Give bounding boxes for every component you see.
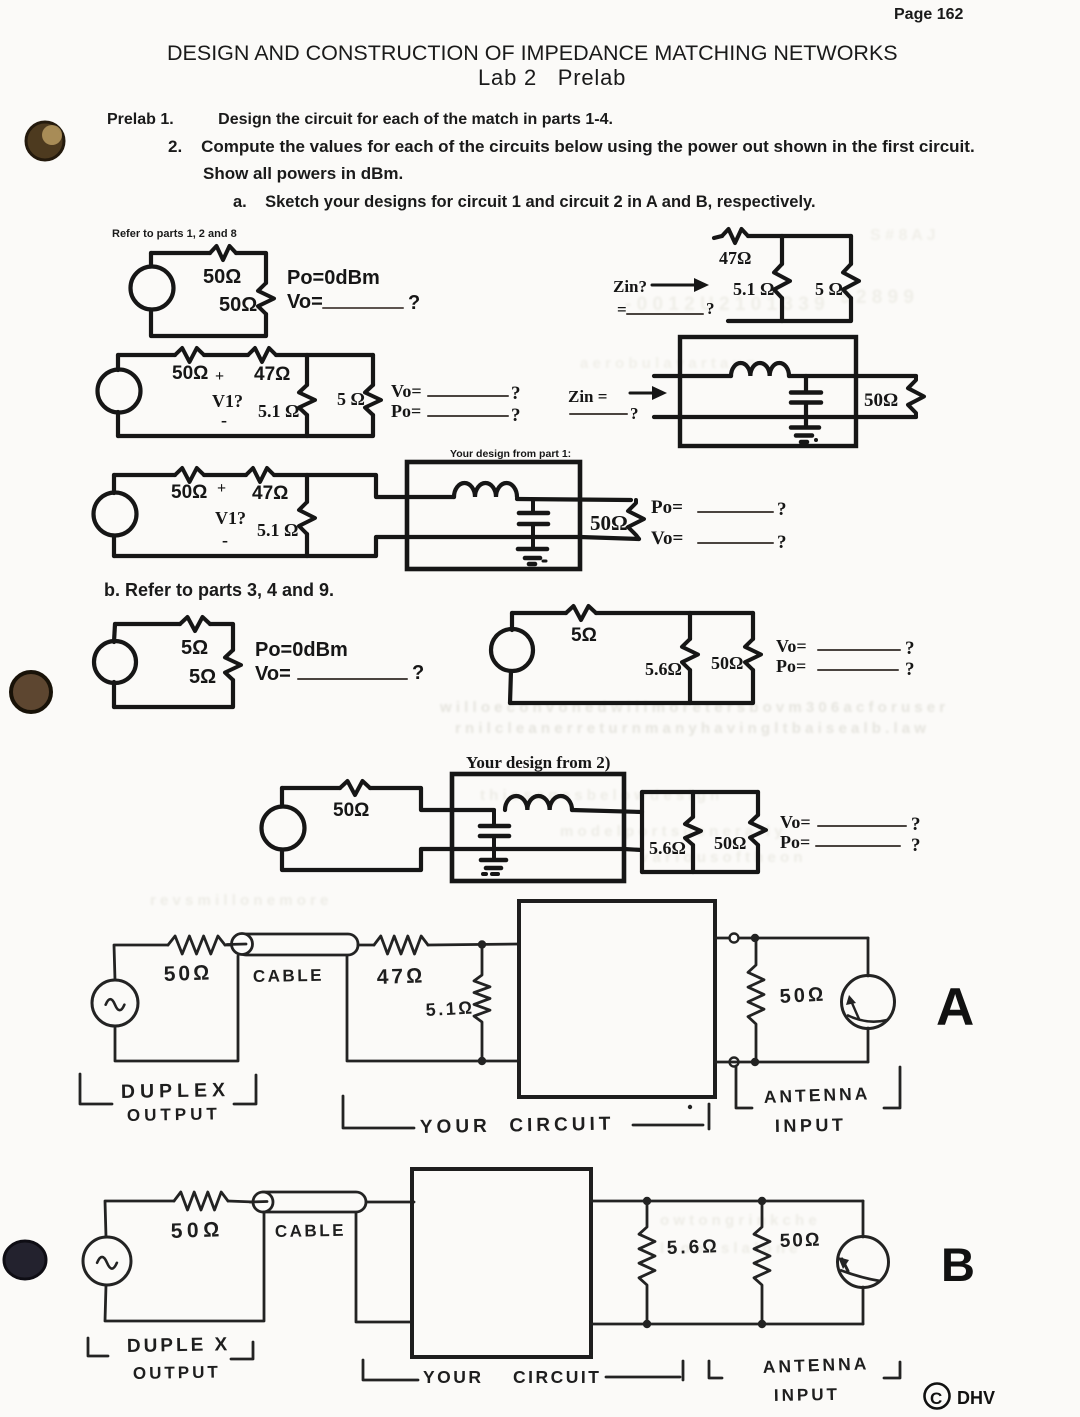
left vertical [510, 671, 511, 703]
bottom internal rail [452, 849, 642, 850]
prelab item 2 [168, 137, 975, 157]
svg-text:Zin =: Zin = [568, 387, 607, 406]
wire left vertical [116, 412, 120, 436]
capacitor lower lead [804, 403, 808, 426]
top output wire [715, 937, 868, 940]
svg-text:YOUR CIRCUIT: YOUR CIRCUIT [423, 1367, 601, 1387]
svg-text:Vo=: Vo= [287, 291, 323, 313]
wire after inductor out of box [572, 810, 642, 812]
arrow [630, 392, 655, 395]
meter to bottom wire [862, 1287, 865, 1324]
wire mid vertical bottom [780, 298, 784, 321]
svg-text:A: A [936, 978, 974, 1037]
svg-text:Po=: Po= [391, 401, 421, 421]
ground bar 1 [518, 547, 547, 552]
capacitor lower lead [492, 836, 496, 859]
wire top right [596, 611, 753, 615]
wire after inductor [517, 499, 631, 500]
svg-text:50Ω: 50Ω [711, 653, 743, 673]
capacitor lower lead [531, 524, 535, 548]
blank Po [428, 415, 508, 417]
wire top rail [282, 786, 340, 790]
junction dot 5.6 top [643, 1197, 651, 1205]
svg-text:?: ? [905, 659, 915, 680]
svg-text:C: C [930, 1389, 942, 1408]
svg-text:?: ? [777, 499, 787, 520]
wire right vertical bottom + bottom rail [728, 298, 851, 321]
svg-text:DUPLEX: DUPLEX [121, 1079, 230, 1103]
your-circuit bracket right [708, 1104, 711, 1129]
prelab item 2 cont [203, 164, 403, 184]
circuit 3: source 50+47+5.1 into 5 ohm [98, 348, 521, 436]
hole punch middle left [11, 672, 51, 712]
section b heading [104, 580, 334, 601]
svg-text:r e v s m i l l o n e m: r e v s m i l l o n e m o r e [150, 892, 328, 909]
connector stub [227, 943, 246, 946]
answer blank for Vo [323, 307, 403, 309]
resistor 5ohm load vertical [225, 650, 241, 680]
capacitor plate top [519, 511, 548, 516]
svg-text:50Ω: 50Ω [590, 511, 628, 535]
wire right bottom [151, 310, 266, 336]
design box [452, 774, 624, 881]
resistor 5.1ohm vertical [299, 502, 315, 534]
svg-text:Vo=: Vo= [651, 528, 683, 549]
resistor 50ohm shunt [754, 1201, 770, 1324]
wire top rail [115, 622, 180, 626]
ground bar 2 [525, 556, 540, 561]
cable return vertical and bottom rail [347, 956, 519, 1061]
wire mid vertical bottom [305, 534, 309, 556]
your-circuit bracket left [343, 1096, 414, 1128]
meter circle [842, 976, 895, 1029]
svg-text:DUPLE X: DUPLE X [127, 1334, 231, 1357]
svg-text:47Ω: 47Ω [254, 364, 290, 385]
resistor 50ohm series (spike) [210, 246, 236, 260]
svg-text:ANTENNA: ANTENNA [762, 1353, 869, 1377]
resistor 47ohm series [374, 936, 428, 954]
source circle [491, 629, 533, 671]
duplex bracket right [234, 1075, 256, 1104]
svg-text:OUTPUT: OUTPUT [133, 1362, 221, 1383]
svg-text:50Ω: 50Ω [172, 363, 208, 384]
wire source to top rail [114, 945, 168, 980]
antenna bracket left [709, 1361, 722, 1378]
your-circuit bracket dash [606, 1376, 680, 1379]
svg-text:5 Ω: 5 Ω [337, 389, 365, 409]
wire top right [236, 253, 266, 283]
blank Vo [818, 825, 906, 827]
inductor [505, 796, 572, 810]
resistor 47ohm series (spike) [722, 229, 748, 243]
wire top jog into box [370, 788, 494, 810]
svg-text:Your design from part 1:: Your design from part 1: [450, 448, 571, 460]
right vertical top [751, 613, 755, 639]
capacitor plate top [791, 390, 821, 395]
svg-text:?: ? [777, 532, 787, 553]
capacitor plate bottom [519, 522, 548, 527]
duplex loop bottom [115, 956, 238, 1061]
resistor 5.6ohm vertical [682, 639, 698, 670]
svg-text:INPUT: INPUT [775, 1115, 847, 1136]
svg-text:Zin?: Zin? [613, 277, 647, 296]
svg-text:Vo=: Vo= [391, 381, 422, 401]
svg-text:-: - [221, 410, 227, 430]
source circle [262, 807, 305, 850]
ground bar 1 [481, 858, 506, 863]
svg-text:V1?: V1? [215, 508, 246, 528]
svg-text:Vo=: Vo= [255, 663, 291, 685]
svg-text:Po=: Po= [776, 656, 806, 676]
wire top stub [714, 236, 722, 238]
resistor 50ohm load vertical [258, 283, 274, 314]
svg-text:Your design from 2): Your design from 2) [466, 753, 610, 772]
prelab item a [233, 193, 816, 212]
duplex loop bottom [105, 1212, 264, 1321]
svg-text:S # 8 A J: S # 8 A J [870, 227, 936, 244]
resistor 5ohm vertical [843, 264, 859, 298]
wire top right [276, 353, 373, 357]
svg-text:Vo=: Vo= [780, 812, 811, 832]
wire between resistors [204, 353, 248, 357]
wire right vertical top [371, 355, 375, 385]
meter circle [838, 1237, 889, 1288]
circuit 5: source through your-design box to 50 ohm [94, 448, 787, 569]
svg-text:50Ω: 50Ω [714, 833, 746, 853]
terminal open circle bottom [730, 1058, 739, 1067]
wire top left [151, 251, 210, 255]
svg-text:5Ω: 5Ω [571, 625, 597, 646]
blank Po [698, 511, 773, 513]
svg-text:+: + [217, 480, 226, 497]
duplex bracket left [88, 1338, 108, 1356]
bottom output wire [591, 1323, 863, 1326]
load left vertical [640, 792, 644, 872]
prelab item 1 [107, 111, 613, 129]
hole punch bottom left [4, 1241, 46, 1279]
blank Zin [570, 413, 627, 415]
resistor 5.1ohm vertical [299, 385, 315, 415]
svg-text:V1?: V1? [212, 391, 243, 411]
wire top rail [512, 611, 566, 615]
svg-text:47Ω: 47Ω [376, 964, 425, 989]
page number [894, 6, 963, 24]
wire right bottom + bottom rail [114, 680, 233, 707]
circuit 1: source loop [131, 246, 421, 336]
resistor 50ohm series [168, 936, 225, 954]
resistor 5ohm series [180, 617, 210, 631]
circuit 8: design-from-2 network with loads [262, 753, 921, 881]
source circle [94, 641, 136, 683]
svg-text:5.1 Ω: 5.1 Ω [258, 401, 299, 421]
svg-text:a e r o b u l a v a r t a u q: a e r o b u l a v a r t a u q [580, 355, 755, 372]
ground bar 2 [486, 866, 501, 871]
node top of 5.1 [478, 940, 486, 948]
left vertical [112, 536, 116, 556]
bottom rail [654, 415, 916, 419]
wire to cable connector [225, 944, 233, 947]
circuit 2: Zin two-resistor network [613, 229, 859, 321]
wire to cable [228, 1201, 254, 1202]
mid vertical top [688, 613, 692, 639]
note refer to parts [112, 228, 237, 240]
cable body [236, 934, 358, 955]
blank Po [816, 845, 900, 847]
wire mid vertical top [305, 355, 309, 385]
svg-text:5Ω: 5Ω [181, 637, 208, 659]
svg-text:INPUT: INPUT [774, 1385, 840, 1405]
svg-text:CABLE: CABLE [275, 1221, 346, 1241]
svg-text:50Ω: 50Ω [171, 482, 207, 503]
ground bar 1 [791, 425, 819, 430]
stray dot [688, 1105, 692, 1109]
svg-text:OUTPUT: OUTPUT [127, 1104, 221, 1125]
your-circuit bracket left [363, 1360, 418, 1380]
svg-text:50Ω: 50Ω [779, 1230, 821, 1252]
wire cable to box [366, 1201, 414, 1204]
svg-text:?: ? [911, 814, 921, 835]
svg-text:50Ω: 50Ω [779, 984, 827, 1008]
arrow to network [652, 284, 697, 287]
wire right vertical bottom + bottom rail [118, 415, 373, 436]
svg-text:?: ? [511, 383, 521, 404]
wire top to corner [748, 234, 851, 238]
svg-text:DHV: DHV [957, 1388, 995, 1408]
source circle [94, 493, 137, 536]
wire 47ohm to box [428, 944, 519, 945]
resistor 5.6ohm shunt [639, 1201, 655, 1324]
resistor 47ohm series [246, 468, 274, 482]
wire top right [210, 624, 233, 650]
svg-text:-: - [222, 530, 228, 550]
meter needle [852, 1003, 859, 1019]
title line 2 [478, 65, 626, 91]
cable connector circle [232, 934, 253, 955]
source circle [98, 370, 141, 413]
junction dot 50 top [758, 1197, 766, 1205]
wire cable to 47ohm [358, 944, 374, 947]
source generator circle [92, 980, 138, 1026]
wire between [204, 473, 246, 477]
svg-text:5.6Ω: 5.6Ω [645, 659, 682, 679]
wire top to jog [274, 475, 454, 497]
junction dot top [751, 934, 759, 942]
wire top rail in [654, 374, 731, 378]
resistor 50ohm series [175, 348, 204, 362]
svg-text:YOUR CIRCUIT: YOUR CIRCUIT [420, 1114, 615, 1138]
circuit 7: 5 ohm source with 5.6 and 50 ohm [491, 606, 915, 703]
resistor 50ohm vertical [750, 815, 766, 845]
wire top rail out [789, 374, 916, 378]
left vertical wires [280, 788, 284, 806]
svg-text:5.1 Ω: 5.1 Ω [733, 279, 774, 299]
svg-text:?: ? [706, 299, 715, 318]
bottom rail with jog [114, 537, 407, 556]
duplex bracket right [231, 1342, 253, 1359]
node bottom of 5.1 [478, 1057, 486, 1065]
wire left top [149, 253, 153, 266]
ground bar 2 [796, 433, 812, 438]
svg-text:50Ω: 50Ω [333, 800, 369, 821]
junction dot bottom [751, 1058, 759, 1066]
resistor 5ohm series [566, 606, 596, 620]
design box [407, 462, 580, 569]
svg-text:Po=: Po= [651, 497, 683, 518]
meter to bottom wire [867, 1028, 870, 1062]
capacitor lead [804, 376, 808, 391]
wire mid vertical top [305, 475, 309, 502]
circuit A: duplex output through cable and your-circuit to antenna [80, 901, 974, 1138]
junction dot 5.6 bottom [643, 1320, 651, 1328]
svg-text:?: ? [412, 662, 424, 684]
resistor 5.1ohm vertical [774, 264, 790, 298]
svg-text:r n i l c l e a n e r r e: r n i l c l e a n e r r e t u r n m a n … [455, 720, 926, 737]
svg-text:47Ω: 47Ω [719, 248, 751, 268]
blank Vo [298, 678, 407, 680]
wire mid vertical bottom [305, 415, 309, 436]
meter drop wire [862, 1201, 865, 1237]
circuit B: duplex output through cable to your-circuit and antenna [83, 1169, 995, 1409]
ground dot [801, 440, 807, 445]
svg-text:?: ? [911, 835, 921, 856]
svg-text:50Ω: 50Ω [170, 1218, 224, 1243]
blank Vo [818, 649, 900, 651]
blank Vo [698, 542, 773, 544]
antenna bracket right [884, 1362, 900, 1378]
copyright symbol [925, 1384, 950, 1409]
svg-text:?: ? [511, 405, 521, 426]
resistor 47ohm series [248, 348, 276, 362]
svg-text:50Ω: 50Ω [163, 961, 212, 986]
your circuit box [412, 1169, 591, 1357]
wire source to top rail [105, 1201, 174, 1237]
connector stub [250, 1200, 267, 1203]
capacitor plate top [480, 824, 509, 829]
top output wire [591, 1200, 863, 1203]
wire right vertical top [849, 236, 853, 264]
svg-text:5.6Ω: 5.6Ω [649, 838, 686, 858]
network box [680, 337, 856, 446]
inductor [731, 363, 789, 376]
resistor 50ohm series [175, 468, 204, 482]
your-circuit bracket right [682, 1361, 685, 1380]
meter scale arc [840, 1270, 880, 1281]
svg-text:?: ? [630, 404, 639, 423]
meter drop wire [867, 938, 870, 976]
svg-text:B: B [941, 1238, 975, 1291]
source generator circle [83, 1237, 131, 1285]
antenna bracket left [736, 1066, 752, 1108]
svg-text:o w t o n g r i n k c h e: o w t o n g r i n k c h e [660, 1212, 817, 1229]
svg-text:5.1Ω: 5.1Ω [425, 997, 475, 1020]
blank Vo [428, 395, 508, 397]
mid vertical bottom [688, 670, 692, 703]
your-circuit bracket dash [633, 1124, 703, 1127]
antenna bracket right [884, 1067, 900, 1108]
svg-text:50Ω: 50Ω [864, 390, 898, 411]
svg-text:47Ω: 47Ω [252, 483, 288, 504]
svg-text:5 Ω: 5 Ω [815, 279, 843, 299]
svg-text:Po=0dBm: Po=0dBm [255, 639, 348, 661]
wire top rail [118, 353, 175, 357]
load top rail [642, 790, 758, 794]
svg-text:Po=: Po= [780, 832, 810, 852]
svg-text:?: ? [408, 292, 420, 314]
svg-text:ANTENNA: ANTENNA [763, 1083, 870, 1107]
svg-text:50Ω: 50Ω [219, 294, 257, 316]
load mid vertical top [691, 792, 695, 817]
node/mid vertical wire top [780, 236, 784, 264]
resistor 5.1ohm shunt [474, 945, 490, 1062]
terminal open circle top [730, 934, 739, 943]
wire top rail [114, 473, 175, 477]
load mid vertical bottom [691, 845, 695, 872]
ground stray dot [543, 560, 546, 563]
circuit 4: Zin of LC matching network [568, 337, 924, 446]
title line 1 [167, 41, 898, 66]
svg-text:5.1 Ω: 5.1 Ω [257, 520, 298, 540]
load right vertical bottom + bottom rail [642, 845, 758, 872]
resistor 50ohm load vertical [628, 500, 644, 539]
your circuit box [519, 901, 715, 1097]
bottom rail out to load [580, 537, 639, 539]
duplex bracket left [80, 1074, 112, 1104]
right vertical bottom + bottom rail [510, 670, 753, 703]
junction dot 50 bottom [758, 1320, 766, 1328]
resistor 50ohm series [340, 781, 370, 795]
ghost bleed-through text top right [0, 0, 1, 1]
bottom internal rail [407, 535, 580, 539]
svg-text:?: ? [905, 638, 915, 659]
resistor 50ohm series [174, 1192, 228, 1210]
ground dots [483, 872, 486, 876]
resistor 50ohm vertical [745, 639, 761, 670]
resistor 50ohm antenna shunt [748, 938, 764, 1062]
inductor [454, 483, 517, 497]
cable body [254, 1192, 366, 1212]
capacitor plate bottom [791, 400, 821, 405]
svg-text:=: = [617, 300, 627, 319]
answer blank Zin [627, 313, 703, 315]
capacitor lead [492, 810, 496, 824]
bottom output wire [715, 1061, 868, 1064]
capacitor lead [531, 500, 535, 511]
svg-text:50Ω: 50Ω [203, 266, 241, 288]
svg-text:Po=0dBm: Po=0dBm [287, 267, 380, 289]
capacitor plate bottom [480, 834, 509, 839]
hole punch top left [26, 122, 64, 160]
svg-text:Vo=: Vo= [776, 636, 807, 656]
resistor 50ohm load [908, 376, 924, 417]
circuit 6: 5 ohm source with 5 ohm load [94, 617, 424, 707]
ground stray dot [814, 438, 818, 442]
load right vertical top [756, 792, 760, 815]
blank Po [818, 669, 898, 671]
svg-text:+: + [215, 368, 224, 385]
left vertical [112, 682, 116, 707]
meter needle [842, 1259, 848, 1271]
meter scale arc [847, 1015, 887, 1022]
source sine symbol [97, 1257, 117, 1269]
source sine symbol [106, 999, 125, 1010]
ground dot [529, 562, 535, 567]
svg-text:- 0 0 1 2 U 2 1 0 1 3 3 9: - 0 0 1 2 U 2 1 0 1 3 3 9 [625, 294, 825, 315]
svg-text:5Ω: 5Ω [189, 666, 216, 688]
cable connector circle [253, 1192, 273, 1212]
svg-text:CABLE: CABLE [253, 966, 324, 986]
resistor 5.6ohm vertical [685, 817, 701, 845]
svg-text:5.6Ω: 5.6Ω [666, 1236, 720, 1259]
